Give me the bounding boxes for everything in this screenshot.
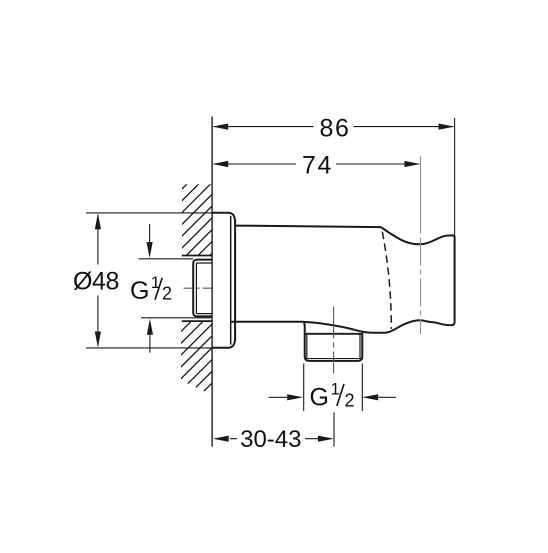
svg-text:Ø48: Ø48: [73, 267, 119, 295]
G1/2 thread arrows (left): [149, 224, 151, 244]
svg-text:1: 1: [331, 380, 340, 399]
dimension 30-43: [333, 412, 335, 446]
dimension 86: [214, 118, 455, 237]
head centerline (74 extension): [420, 156, 422, 233]
in-wall G1/2 socket: [193, 260, 212, 317]
holder head outline: [373, 227, 455, 333]
svg-text:86: 86: [319, 114, 350, 142]
svg-text:2: 2: [345, 391, 355, 411]
dimension 74: [214, 163, 419, 165]
wall hole top edge: [182, 255, 212, 257]
wall face line: [211, 117, 213, 447]
dimension D48 vertical line + arrows: [97, 215, 99, 346]
dimension G1/2 (bottom) extension lines: [304, 364, 363, 412]
svg-text:30-43: 30-43: [240, 426, 301, 453]
wall hole bottom edge: [182, 320, 212, 322]
nipple centerline: [333, 307, 335, 374]
holder arm top edge: [235, 226, 381, 228]
wall hatching bottom band: [105, 284, 311, 396]
svg-text:G: G: [310, 383, 329, 411]
holder arm bottom edge: [231, 321, 304, 323]
thread extension lines: [139, 259, 212, 318]
boss curve around outlet: [304, 322, 374, 333]
flange (escutcheon): [212, 213, 235, 348]
svg-text:G: G: [130, 277, 149, 305]
outlet nipple: [304, 322, 362, 361]
svg-text:74: 74: [302, 152, 333, 180]
bottom G1/2 arrows: [269, 396, 288, 398]
hidden edge (dashed) between arm and head: [382, 232, 391, 329]
dimension D48 extension lines: [86, 213, 212, 348]
socket centerline: [184, 287, 213, 289]
wall hatching top band: [115, 144, 321, 256]
svg-text:2: 2: [162, 284, 172, 304]
